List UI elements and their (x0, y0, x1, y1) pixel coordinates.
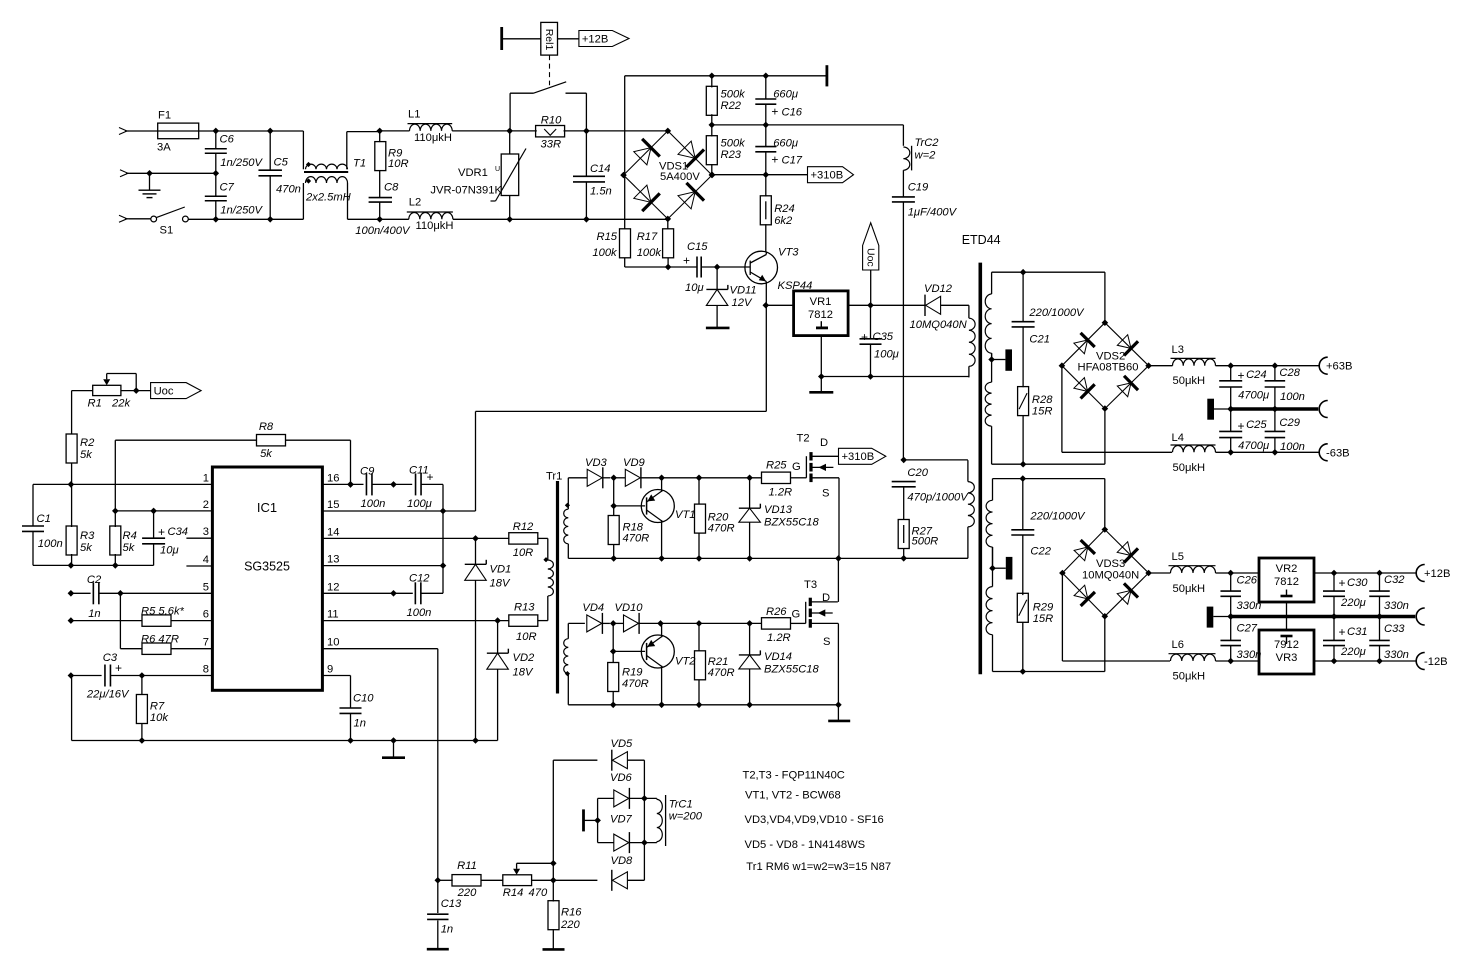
svg-text:R16: R16 (561, 907, 582, 919)
svg-text:Tr1 RM6 w1=w2=w3=15 N87: Tr1 RM6 w1=w2=w3=15 N87 (746, 861, 891, 873)
svg-text:14: 14 (327, 526, 339, 538)
svg-text:-63B: -63B (1326, 447, 1350, 459)
svg-text:470R: 470R (708, 523, 735, 535)
svg-text:VD8: VD8 (611, 855, 634, 867)
svg-text:5A400V: 5A400V (660, 171, 700, 183)
wire (639, 622, 762, 624)
svg-text:R5 5.6k*: R5 5.6k* (141, 606, 185, 618)
svg-text:1.2R: 1.2R (769, 487, 793, 499)
svg-text:R4: R4 (123, 530, 137, 542)
svg-text:C22: C22 (1030, 546, 1051, 558)
svg-text:1n/250V: 1n/250V (220, 205, 263, 217)
svg-text:22k: 22k (111, 398, 131, 410)
capacitor C14 (585, 131, 587, 176)
relay contact (509, 93, 511, 131)
svg-text:Uoc: Uoc (865, 248, 877, 267)
svg-text:1.5n: 1.5n (590, 186, 612, 198)
bridge rectifier VDS1 (624, 131, 668, 175)
svg-text:Rel1: Rel1 (543, 29, 555, 51)
svg-text:R8: R8 (259, 421, 274, 433)
svg-text:L4: L4 (1172, 432, 1184, 444)
svg-text:L5: L5 (1172, 551, 1184, 563)
svg-text:C6: C6 (220, 134, 235, 146)
svg-text:50μkH: 50μkH (1173, 671, 1206, 683)
svg-text:C8: C8 (384, 182, 399, 194)
capacitor C24 (1230, 366, 1232, 381)
svg-text:660μ: 660μ (773, 138, 798, 150)
wire (586, 130, 667, 132)
wire (904, 557, 968, 559)
svg-text:6k2: 6k2 (774, 215, 793, 227)
snubber winding TrC2 (902, 125, 904, 146)
svg-text:330n: 330n (1384, 649, 1409, 661)
svg-text:100n: 100n (361, 498, 386, 510)
wire pin12 row (322, 592, 412, 594)
svg-text:10μ: 10μ (160, 545, 179, 557)
screen tab mid rail 63V (1207, 399, 1214, 420)
svg-text:C15: C15 (687, 241, 708, 253)
regulator VR3 7912 (1259, 630, 1314, 674)
svg-text:VD13: VD13 (764, 504, 793, 516)
svg-text:F1: F1 (158, 110, 171, 122)
MOSFET T3 (805, 602, 807, 624)
svg-text:VT1: VT1 (675, 509, 696, 521)
diode VD4 (587, 615, 602, 632)
capacitor C17 (765, 125, 767, 147)
connector +12B (1416, 565, 1425, 582)
svg-text:SG3525: SG3525 (244, 560, 290, 574)
inductor L1 (380, 130, 410, 132)
ground (828, 720, 850, 723)
terminal bar (826, 65, 829, 86)
svg-text:w=2: w=2 (915, 150, 937, 162)
svg-text:VR3: VR3 (1276, 652, 1298, 664)
zener VD13 (749, 478, 751, 508)
resistor R9 (379, 131, 381, 142)
resistor R6 (119, 593, 121, 648)
capacitor C25 (1230, 409, 1232, 431)
svg-text:10MQ040N: 10MQ040N (910, 319, 968, 331)
wire pin10 row (322, 648, 437, 650)
svg-text:+: + (115, 661, 122, 675)
switch S1 (129, 218, 151, 220)
svg-text:R24: R24 (774, 203, 795, 215)
wire +12V rail down to IC1 (765, 305, 767, 411)
zener VD1 (475, 538, 477, 564)
svg-text:IC1: IC1 (257, 500, 277, 515)
wire (603, 477, 611, 479)
resistor R27 (898, 520, 909, 549)
svg-text:C33: C33 (1384, 623, 1405, 635)
wire VT1 bottom row (568, 557, 903, 559)
svg-text:1n/250V: 1n/250V (220, 157, 263, 169)
svg-text:C1: C1 (37, 513, 51, 525)
flag +12B (579, 31, 629, 47)
wire VT2 top row (568, 622, 585, 624)
wire (510, 218, 668, 220)
pin3 stub (186, 537, 212, 539)
svg-text:220/1000V: 220/1000V (1029, 511, 1086, 523)
capacitor C34 (153, 511, 155, 538)
svg-text:VD3,VD4,VD9,VD10 - SF16: VD3,VD4,VD9,VD10 - SF16 (745, 814, 884, 826)
svg-text:4700μ: 4700μ (1238, 440, 1269, 452)
fuse F1 (158, 123, 199, 139)
capacitor C31 (1333, 617, 1335, 641)
svg-text:VT1, VT2 - BCW68: VT1, VT2 - BCW68 (745, 790, 841, 802)
svg-text:100n: 100n (1280, 391, 1305, 403)
pin4 stub (186, 565, 212, 567)
connector mid 12V (1416, 608, 1425, 625)
svg-text:+310B: +310B (811, 170, 844, 182)
screen tab mid rail 12V (1207, 607, 1214, 628)
svg-text:10R: 10R (516, 631, 537, 643)
svg-text:12: 12 (327, 581, 339, 593)
svg-text:5: 5 (203, 581, 209, 593)
inductor L3 (1149, 365, 1173, 367)
input terminal L (119, 128, 127, 135)
svg-text:10MQ040N: 10MQ040N (1082, 569, 1139, 581)
wire VT1 top row (568, 477, 587, 479)
wire (33, 564, 154, 566)
svg-text:HFA08TB60: HFA08TB60 (1078, 362, 1139, 374)
wire (199, 130, 304, 132)
svg-text:U: U (495, 166, 500, 173)
svg-text:VD11: VD11 (730, 285, 757, 297)
svg-text:10R: 10R (388, 158, 409, 170)
svg-text:2: 2 (203, 499, 209, 511)
svg-text:15R: 15R (1032, 406, 1053, 418)
svg-text:7812: 7812 (808, 309, 833, 321)
svg-text:C16: C16 (782, 107, 803, 119)
ground (393, 741, 395, 758)
flag Uoc (vertical) (863, 223, 879, 270)
svg-text:7812: 7812 (1274, 576, 1299, 588)
svg-text:L2: L2 (409, 197, 421, 209)
svg-text:L6: L6 (1172, 639, 1184, 651)
resistor R3 (66, 526, 77, 555)
resistor R29 (1017, 593, 1028, 622)
resistor R7 (141, 676, 143, 696)
transistor VT2 (641, 635, 674, 668)
capacitor C19 (902, 170, 904, 197)
resistor R12 (509, 533, 538, 544)
zener VD2 (497, 621, 499, 654)
svg-text:VR2: VR2 (1276, 563, 1298, 575)
mid rail thick (1231, 407, 1319, 410)
svg-text:18V: 18V (490, 578, 511, 590)
svg-text:660μ: 660μ (773, 89, 798, 101)
inductor L4 (1173, 446, 1216, 453)
connector -12B (1416, 653, 1425, 670)
svg-text:TrC1: TrC1 (669, 799, 693, 811)
svg-text:110μkH: 110μkH (416, 220, 454, 232)
svg-text:L3: L3 (1172, 344, 1184, 356)
svg-text:VD5 - VD8 - 1N4148WS: VD5 - VD8 - 1N4148WS (745, 839, 866, 851)
svg-text:L1: L1 (408, 109, 420, 121)
wire T2 source (838, 478, 840, 559)
svg-text:16: 16 (327, 472, 339, 484)
capacitor C12 (414, 582, 416, 604)
svg-text:100n: 100n (1280, 441, 1305, 453)
svg-text:T2,T3 - FQP11N40C: T2,T3 - FQP11N40C (743, 770, 845, 782)
Tr1 primary winding (547, 538, 549, 560)
zener VD14 (749, 623, 751, 655)
flag +310B (808, 167, 854, 183)
svg-text:R23: R23 (721, 149, 742, 161)
svg-text:33R: 33R (541, 139, 562, 151)
wire (904, 459, 968, 461)
wire T3 drain (837, 558, 839, 602)
wire (347, 131, 380, 133)
wire (129, 130, 158, 132)
connector mid 63V (1319, 401, 1328, 418)
inductor L2 (380, 218, 409, 220)
mid rail thick 12V (1231, 615, 1416, 618)
resistor R2 (71, 391, 73, 434)
svg-text:R14: R14 (503, 887, 524, 899)
resistor R20 (698, 478, 700, 504)
svg-text:VDS3: VDS3 (1096, 558, 1125, 570)
svg-text:10R: 10R (513, 547, 534, 559)
zener VD11 (716, 267, 718, 289)
svg-text:50μkH: 50μkH (1173, 375, 1206, 387)
svg-text:100n: 100n (407, 607, 432, 619)
svg-text:VD14: VD14 (764, 651, 792, 663)
wire (763, 302, 770, 309)
wire pin9 (322, 675, 350, 677)
potentiometer R1 (93, 385, 121, 395)
transistor VT3 KSP44 (745, 251, 778, 284)
varistor VDR1 (509, 131, 511, 154)
svg-text:VT3: VT3 (778, 247, 799, 259)
svg-text:VDS2: VDS2 (1096, 350, 1125, 362)
svg-text:+12B: +12B (1424, 568, 1450, 580)
svg-text:10μ: 10μ (685, 282, 704, 294)
wire (625, 75, 827, 77)
resistor R26 (762, 618, 791, 629)
capacitor C7 (215, 173, 217, 196)
resistor R15 (620, 229, 631, 258)
svg-text:7: 7 (203, 637, 209, 649)
svg-text:Uoc: Uoc (154, 386, 174, 398)
svg-text:VD2: VD2 (513, 652, 536, 664)
svg-text:1: 1 (203, 472, 209, 484)
svg-text:22μ/16V: 22μ/16V (86, 689, 130, 701)
capacitor C3 (72, 675, 102, 677)
capacitor C33 (1379, 617, 1381, 641)
wire pin16 row (322, 483, 363, 485)
transformer Tr1 core (556, 481, 559, 694)
diode VD7 (598, 842, 614, 844)
MOSFET T2 (805, 456, 807, 478)
resistor R18 (613, 478, 615, 516)
capacitor C35 (870, 305, 872, 339)
capacitor C5 (269, 131, 271, 170)
primary winding Tr (main) (967, 460, 969, 481)
svg-text:R22: R22 (721, 100, 742, 112)
svg-text:C35: C35 (873, 331, 894, 343)
svg-text:T2: T2 (797, 433, 810, 445)
wire from pin10 to R11 (435, 877, 442, 884)
svg-text:220/1000V: 220/1000V (1028, 307, 1085, 319)
svg-text:470R: 470R (622, 678, 649, 690)
svg-text:C21: C21 (1029, 334, 1050, 346)
svg-text:R19: R19 (622, 667, 643, 679)
svg-text:100k: 100k (592, 247, 618, 259)
wire (1314, 660, 1416, 662)
resistor R17 (667, 219, 669, 229)
Tr1 secondary winding 2 (567, 623, 569, 638)
svg-text:9: 9 (327, 664, 333, 676)
svg-text:R12: R12 (513, 521, 534, 533)
capacitor C27 (1220, 639, 1241, 641)
svg-text:R17: R17 (637, 231, 658, 243)
input terminal N (120, 170, 128, 177)
secondary winding upper (63V) (991, 272, 993, 294)
svg-text:C28: C28 (1279, 367, 1300, 379)
svg-text:T1: T1 (353, 158, 366, 170)
svg-text:C29: C29 (1279, 417, 1300, 429)
connector -63B (1319, 444, 1328, 461)
resistor R16 (552, 880, 554, 901)
wire (188, 218, 303, 220)
ground (149, 173, 151, 190)
inductor L5 (1149, 572, 1171, 574)
inductor L6 (1171, 654, 1216, 661)
svg-text:ETD44: ETD44 (962, 233, 1001, 247)
resistor R19 (612, 623, 614, 663)
wire pin5 row (72, 592, 91, 594)
capacitor C1 (32, 484, 34, 526)
input terminal via S1 (119, 215, 127, 222)
svg-text:R1: R1 (88, 398, 102, 410)
secondary winding lower (12V) (992, 479, 994, 501)
wire (558, 38, 579, 40)
svg-text:TrC2: TrC2 (915, 137, 940, 149)
svg-text:3A: 3A (157, 142, 171, 154)
svg-text:1.2R: 1.2R (767, 632, 791, 644)
svg-text:330n: 330n (1384, 600, 1409, 612)
svg-text:220μ: 220μ (1340, 597, 1366, 609)
aux winding (968, 305, 970, 318)
svg-text:1μF/400V: 1μF/400V (908, 207, 958, 219)
wire VT2 bottom row (568, 704, 838, 706)
svg-text:S1: S1 (160, 225, 174, 237)
svg-text:220: 220 (560, 919, 580, 931)
svg-text:D: D (822, 592, 830, 604)
svg-text:+: + (158, 525, 165, 539)
svg-text:w=200: w=200 (669, 811, 703, 823)
svg-text:1n: 1n (354, 718, 366, 730)
svg-text:+: + (427, 470, 434, 484)
svg-text:110μkH: 110μkH (414, 132, 452, 144)
capacitor C16 (765, 76, 767, 99)
svg-text:C10: C10 (353, 693, 374, 705)
capacitor C28 (1274, 366, 1276, 381)
wire (992, 271, 1105, 273)
resistor R22 (711, 76, 713, 88)
wire (1061, 366, 1063, 453)
svg-text:R6 47R: R6 47R (141, 634, 179, 646)
svg-text:R3: R3 (80, 530, 95, 542)
svg-text:G: G (792, 461, 801, 473)
ground (706, 327, 730, 330)
svg-text:JVR-07N391K: JVR-07N391K (430, 185, 502, 197)
svg-text:C31: C31 (1347, 626, 1368, 638)
svg-text:C27: C27 (1237, 623, 1258, 635)
svg-text:C24: C24 (1246, 369, 1267, 381)
svg-text:R15: R15 (597, 231, 618, 243)
svg-text:VD5: VD5 (611, 738, 634, 750)
wire pin13 row (322, 565, 443, 567)
svg-text:15: 15 (327, 499, 339, 511)
svg-text:10: 10 (327, 637, 339, 649)
capacitor C22 (1022, 479, 1024, 530)
svg-text:C30: C30 (1347, 577, 1368, 589)
svg-text:R29: R29 (1033, 602, 1054, 614)
diode VD5 (553, 759, 597, 761)
svg-text:BZX55C18: BZX55C18 (764, 664, 820, 676)
wire VR1 ground rail (821, 376, 969, 378)
wire pin1 row (33, 483, 212, 485)
svg-text:+: + (1238, 369, 1245, 383)
svg-text:+: + (771, 105, 778, 119)
svg-text:11: 11 (327, 609, 339, 621)
svg-text:C20: C20 (907, 467, 928, 479)
svg-text:1n: 1n (88, 608, 100, 620)
svg-text:R25: R25 (766, 460, 787, 472)
resistor R4 (114, 511, 116, 527)
svg-text:R13: R13 (514, 602, 535, 614)
capacitor C30 (1333, 573, 1335, 591)
wire (503, 38, 541, 40)
resistor R28 (1018, 387, 1029, 416)
svg-text:50μkH: 50μkH (1173, 462, 1206, 474)
capacitor C9 (365, 473, 367, 495)
svg-text:R7: R7 (150, 701, 165, 713)
svg-text:+310B: +310B (842, 451, 875, 463)
svg-text:+: + (861, 330, 868, 344)
wire pin15 row (322, 510, 475, 512)
svg-text:-12B: -12B (1424, 656, 1448, 668)
common-mode choke T1 (302, 131, 304, 169)
wire (550, 877, 557, 884)
resistor R13 (509, 615, 538, 626)
diode VD3 (587, 469, 602, 486)
terminal bar (582, 809, 585, 831)
ground (818, 373, 825, 380)
svg-text:+12B: +12B (582, 33, 608, 45)
svg-text:C34: C34 (168, 526, 189, 538)
resistor R10 (510, 130, 537, 132)
regulator VR2 7812 (1259, 558, 1314, 602)
svg-text:VD1: VD1 (490, 564, 512, 576)
svg-text:+: + (1339, 576, 1346, 590)
ground (427, 948, 449, 951)
svg-text:500k: 500k (721, 89, 747, 101)
svg-text:C12: C12 (409, 573, 430, 585)
svg-text:S: S (823, 636, 830, 648)
diode VD8 (612, 872, 627, 889)
svg-text:10k: 10k (150, 712, 169, 724)
wire (941, 304, 969, 306)
svg-text:500R: 500R (912, 536, 939, 548)
capacitor C11 (415, 473, 417, 495)
svg-text:C17: C17 (782, 155, 803, 167)
ground (543, 948, 565, 951)
svg-text:C5: C5 (274, 157, 289, 169)
capacitor C13 (437, 880, 439, 913)
